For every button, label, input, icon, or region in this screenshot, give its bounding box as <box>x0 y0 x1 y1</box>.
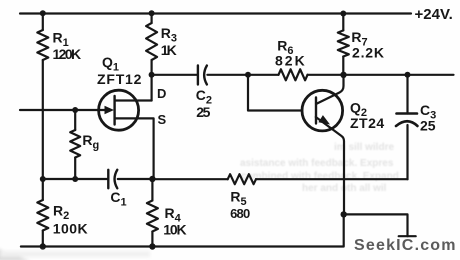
node R4 / C1 / S junction <box>149 176 155 182</box>
wire R3 bottom to drain node <box>151 60 153 101</box>
wire R1 lead from rail <box>42 14 44 31</box>
faint bleed-through text row 1 <box>240 142 399 194</box>
wire Q1 drain line <box>115 99 152 101</box>
wire R1 bottom to C1 node <box>42 60 44 179</box>
wire C2 right lead <box>207 74 248 76</box>
transistor Q2 circle <box>302 90 343 131</box>
node C1 line / Rg junction <box>72 176 78 182</box>
wire C1 right lead <box>118 178 153 180</box>
wire Rg bottom lead <box>74 158 76 180</box>
svg-text:82K: 82K <box>275 53 307 69</box>
svg-text:combined with feedback. Expand: combined with feedback. Expand <box>241 171 399 182</box>
svg-text:10K: 10K <box>163 221 186 237</box>
transistor Q1 gate arrow <box>105 106 115 114</box>
wire C1 left lead <box>43 178 109 180</box>
node emitter / bottom junction <box>341 211 347 217</box>
wire R7 top lead <box>342 14 344 31</box>
wire R4 bottom lead <box>151 232 153 247</box>
wire top +24V rail <box>20 12 411 14</box>
svg-text:1K: 1K <box>161 42 177 58</box>
resistor Rg <box>70 130 80 158</box>
wire R6 right lead to R7 node <box>308 74 344 76</box>
resistor R1 <box>37 30 48 60</box>
transistor Q2 base bar <box>315 98 317 124</box>
node C1 line / R1-R2 junction <box>40 176 46 182</box>
wire C2 left lead <box>152 74 198 76</box>
node R6 / R7 / collector junction <box>340 72 346 78</box>
node top rail / R1 junction <box>40 10 46 16</box>
scan smudge bottom-left <box>0 248 150 260</box>
node bottom rail / R4 <box>149 243 155 249</box>
wire Rg top lead <box>74 110 76 130</box>
node C2 / R6 / base junction <box>245 72 251 78</box>
wire bottom rail <box>21 214 344 246</box>
node top rail / R7 junction <box>340 11 346 17</box>
wire R7 bottom lead <box>342 57 344 75</box>
capacitor C1 <box>108 170 117 189</box>
node gate/Rg junction <box>72 107 78 113</box>
transistor Q2 emitter arrow <box>318 115 330 124</box>
wire R2 leads <box>42 179 44 247</box>
capacitor C3 <box>396 114 418 127</box>
svg-text:ZFT12: ZFT12 <box>97 71 142 87</box>
svg-text:SeekIC.com: SeekIC.com <box>354 237 457 254</box>
svg-text:100K: 100K <box>53 221 88 237</box>
node bottom rail / R2 <box>40 243 46 249</box>
resistor R3 <box>146 23 157 60</box>
node output / C3 junction <box>405 72 411 78</box>
svg-text:680: 680 <box>230 206 250 221</box>
wire input gate line <box>20 109 109 111</box>
capacitor C2 <box>198 66 207 85</box>
wire Q2 collector <box>316 75 344 104</box>
resistor R5 <box>228 174 256 184</box>
node top rail / R3 junction <box>149 10 155 16</box>
wire terminal tick over IC <box>399 235 416 237</box>
transistor Q1 FET circle <box>99 90 139 130</box>
resistor R7 <box>338 30 349 56</box>
svg-text:D: D <box>157 86 166 101</box>
transistor Q1 channel bar <box>113 96 115 125</box>
svg-text:25: 25 <box>196 104 210 120</box>
svg-text:S: S <box>158 112 167 127</box>
wire Q1 source line <box>115 118 154 179</box>
resistor R4 <box>147 201 158 232</box>
svg-text:120K: 120K <box>53 46 82 62</box>
wire Q2 emitter <box>316 117 344 214</box>
svg-text:+24V.: +24V. <box>415 6 453 23</box>
wire R3 top lead <box>151 14 153 24</box>
wire R6 left lead <box>248 74 279 76</box>
resistor R6 <box>279 69 308 80</box>
svg-text:asistance with feedback. Expre: asistance with feedback. Expres <box>240 158 394 169</box>
svg-text:C1: C1 <box>110 189 126 209</box>
svg-text:25: 25 <box>420 118 436 134</box>
wire R5 right lead to C3 <box>256 178 408 180</box>
wire C3 top lead <box>406 75 408 114</box>
wire Q2 base branch <box>248 75 302 111</box>
wire R4 top lead <box>151 179 153 201</box>
wire to watermark terminal <box>344 214 408 236</box>
node R3 / C2 / drain junction <box>149 72 155 78</box>
svg-text:ZT24: ZT24 <box>350 115 385 131</box>
svg-text:2.2K: 2.2K <box>352 45 385 61</box>
wire R5 left lead <box>152 178 227 180</box>
svg-text:Rg: Rg <box>82 132 99 152</box>
svg-text:R2: R2 <box>53 203 69 223</box>
wire output line to right edge <box>344 74 454 76</box>
resistor R2 <box>37 200 48 231</box>
wire C3 bottom lead <box>406 125 408 179</box>
